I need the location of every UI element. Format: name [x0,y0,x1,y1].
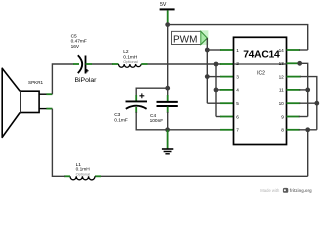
svg-text:14: 14 [279,48,285,53]
svg-text:10: 10 [279,101,285,106]
svg-text:C4: C4 [150,113,156,119]
wire speaker top to C5 row [52,64,73,94]
node gnd junction [165,127,170,132]
svg-text:fritzing.org: fritzing.org [290,188,312,193]
svg-text:0.47mF: 0.47mF [71,39,87,45]
svg-text:4: 4 [236,88,239,93]
node 5V junction [165,22,170,27]
node pin13 bendpoint [297,61,302,66]
node pin3 junction [205,74,210,79]
svg-text:C3: C3 [114,112,120,118]
svg-text:PWM: PWM [173,34,197,45]
svg-text:13: 13 [279,61,285,66]
IC2 74AC14 [234,37,287,144]
svg-text:5V: 5V [160,2,167,8]
wire pin3 [207,76,221,78]
svg-text:0.1mF: 0.1mF [114,117,128,123]
wire pin4 [216,89,221,91]
node pin8 junction [305,127,310,132]
svg-text:9: 9 [281,114,284,119]
wire pin1 [207,49,221,51]
node pin1 junction [205,48,210,53]
wire pin8 [287,129,300,131]
svg-text:12: 12 [279,74,285,79]
svg-text:Optional: Optional [76,171,91,176]
svg-text:100nF: 100nF [150,118,164,124]
svg-text:7: 7 [236,128,239,133]
wire pins 2-4-6 output bus [215,64,217,117]
wire 5V down to decoupling caps [167,25,169,89]
wire green stub into C5 [73,63,79,65]
svg-text:3: 3 [236,74,239,79]
ground [162,130,173,154]
wire pin5 [207,102,221,104]
capacitor C4 [150,88,178,130]
svg-text:Optional: Optional [123,59,138,64]
wire bottom rail right segment [96,175,308,177]
wire caps top rail [136,88,168,96]
svg-text:SPKR1: SPKR1 [28,80,44,85]
wire gnd row to IC pin7 [168,129,221,131]
inductor L1 [70,162,95,180]
svg-text:2: 2 [236,61,239,66]
node pin11 junction [305,88,310,93]
svg-text:IC2: IC2 [257,70,265,76]
wire pin14 [287,49,301,51]
wire pin6 [216,116,221,118]
wire C3 bottom to gnd rail [135,107,137,113]
wire L1 to speaker bottom [64,175,70,177]
svg-text:5: 5 [236,101,239,106]
svg-text:6: 6 [236,114,239,119]
svg-text:11: 11 [279,88,284,93]
svg-text:Made with: Made with [260,188,280,193]
node pin4 junction [214,88,219,93]
wire pin12 [287,76,301,78]
wire pins 1-3-5 input bus [206,50,208,103]
wire PWM flag to pin1 [206,38,208,50]
wire pin8 bus down to bottom rail [307,130,309,177]
svg-text:8: 8 [281,128,284,133]
capacitor C5 [71,34,98,85]
wire pin10 [287,102,301,104]
wire pin13 [287,62,301,64]
net label PWM [172,30,209,45]
capacitor C3 [114,93,147,123]
svg-text:BiPolar: BiPolar [75,77,98,84]
svg-text:16V: 16V [71,44,80,50]
wire pin9 [287,116,300,118]
svg-text:74AC14: 74AC14 [243,50,280,61]
speaker SPKR1 [2,68,52,137]
node pin10 junction [314,101,319,106]
inductor L2 [119,49,142,67]
wire 5V top rail to pin14 feed [168,25,308,50]
footer Made with fritzing.org [260,188,312,193]
wire L2 to IC pin2 [141,63,147,65]
5V supply symbol [160,2,175,24]
node C4 top junction [165,86,170,91]
wire pin11 [287,89,301,91]
svg-text:1: 1 [236,48,239,53]
svg-text:C5: C5 [71,34,77,40]
wire C5 to L2 [86,63,93,65]
svg-text:L2: L2 [123,49,129,55]
node pin2 junction [214,62,219,67]
